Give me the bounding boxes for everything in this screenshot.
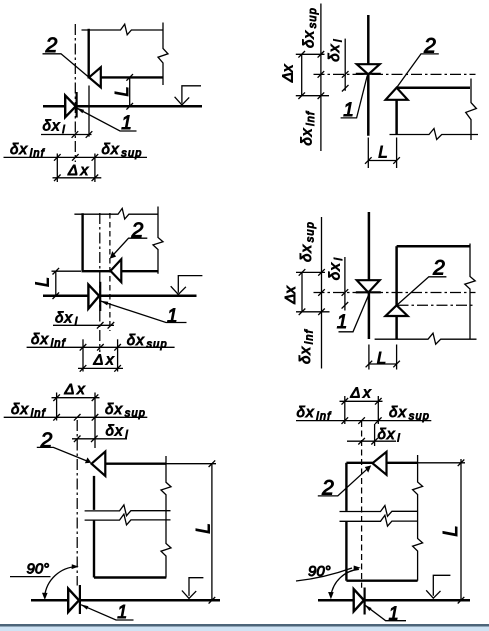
tick axis row: [97, 344, 104, 351]
tick DeltaX left: [342, 398, 349, 405]
tick inf: [53, 414, 60, 421]
axis line (dash-dot, vertical): [99, 213, 101, 352]
angle arrowhead down: [42, 593, 48, 600]
sight arrowhead: [182, 591, 196, 599]
svg-text:L: L: [440, 525, 462, 536]
svg-text:1: 1: [343, 100, 354, 121]
mark 1 tick: [75, 92, 77, 118]
svg-text:δxsup: δxsup: [127, 332, 168, 351]
svg-text:δxinf: δxinf: [299, 111, 318, 146]
baseline (thick): [43, 294, 197, 297]
dimension L line: [129, 77, 131, 106]
mark 2 triangle (open): [111, 259, 122, 282]
angle arc: [331, 569, 359, 596]
tick sup: [92, 414, 99, 421]
axis line (dash-dot, horizontal): [314, 73, 476, 75]
axis line (dashed, vertical): [361, 421, 363, 588]
svg-text:δxi: δxi: [327, 257, 346, 280]
building top edge (thick): [397, 245, 470, 248]
tick DeltaX bottom: [298, 92, 305, 99]
building right contour with breaks: [161, 456, 171, 578]
svg-text:δxinf: δxinf: [11, 401, 46, 420]
building top edge extension: [166, 463, 216, 465]
angle leader curve: [296, 568, 352, 581]
building wall below mark 2 (thick): [395, 100, 398, 135]
mark 2 triangle (open, up): [386, 305, 408, 316]
leader 1 arrowhead: [100, 301, 108, 306]
mark 1 tick bar: [356, 73, 381, 75]
svg-text:δxinf: δxinf: [10, 141, 45, 160]
svg-text:1: 1: [337, 312, 348, 333]
leader 1: [101, 301, 187, 323]
mark 2 triangle (open): [373, 452, 387, 475]
building bottom contour with break: [390, 129, 479, 140]
angle arrowhead right: [354, 566, 361, 571]
sight direction arrow: [433, 575, 450, 595]
dimension deltaX i line: [72, 438, 127, 440]
dimension row inf-sup line: [27, 346, 175, 348]
svg-text:δxinf: δxinf: [31, 331, 66, 350]
dimension L extension right: [396, 138, 398, 169]
dimension dXi line: [344, 39, 346, 91]
mark 1 triangle (open, down): [357, 280, 380, 292]
svg-text:L: L: [378, 143, 387, 162]
leader 2: [397, 277, 447, 305]
tick L right: [393, 157, 400, 164]
leader 2: [113, 238, 147, 255]
building left wall upper (thick): [395, 246, 398, 305]
axis line (dash-dot, vertical): [76, 420, 78, 586]
dimension L line: [368, 160, 396, 162]
leader 1 arrowhead: [76, 108, 84, 114]
svg-text:L: L: [377, 349, 386, 368]
building right contour with break: [153, 207, 163, 274]
sight arrowhead: [171, 286, 186, 294]
extension sup line: [94, 393, 96, 449]
leader 2: [43, 54, 90, 78]
tick axis level: [318, 289, 325, 296]
svg-text:1: 1: [167, 306, 178, 327]
break line lower: [85, 514, 171, 525]
leader 1 arrowhead: [80, 604, 88, 609]
tick L right: [393, 361, 400, 368]
dimension L line: [460, 459, 462, 600]
building top edge (thick): [105, 463, 166, 465]
tick dXi axis: [72, 131, 79, 138]
svg-text:δxsup: δxsup: [301, 7, 320, 48]
tick DeltaX left: [80, 365, 87, 372]
dimension DeltaX line: [53, 177, 102, 179]
axis line 2 (dash-dot, horizontal): [398, 304, 476, 306]
main vertical line (thick): [367, 15, 370, 136]
tick dXi point: [108, 322, 115, 329]
dimension deltaX i line: [347, 440, 396, 442]
dimension L extension left: [368, 345, 370, 370]
building left wall upper (thick): [93, 476, 95, 510]
mark 2 triangle (open): [92, 452, 106, 476]
svg-text:Δx: Δx: [93, 351, 117, 368]
svg-text:1: 1: [117, 602, 127, 622]
dimension L line: [369, 363, 397, 365]
mark 2 triangle (open, up): [386, 88, 408, 100]
tick inf boundary: [318, 309, 325, 316]
svg-text:90°: 90°: [27, 561, 50, 578]
svg-text:L: L: [33, 277, 53, 287]
tick L left: [365, 157, 372, 164]
tick inf: [342, 417, 349, 424]
tick DeltaX left: [54, 175, 61, 182]
dimension L line: [211, 464, 213, 601]
tick axis row: [358, 417, 365, 424]
tick L left: [366, 361, 373, 368]
tick dXi axis: [342, 71, 349, 78]
tick L top: [126, 74, 133, 81]
leader 2: [397, 54, 439, 88]
svg-text:2: 2: [40, 429, 53, 452]
svg-text:δxi: δxi: [106, 422, 129, 441]
building left wall upper (thick): [345, 463, 347, 511]
baseline (thick): [43, 105, 202, 108]
tick sup: [114, 344, 121, 351]
tick inf: [54, 154, 61, 161]
building right contour with break: [466, 79, 477, 141]
tick axis level: [318, 71, 325, 78]
leader 1: [81, 605, 134, 620]
sight direction arrow: [182, 86, 201, 104]
tick dXi axis: [342, 289, 349, 296]
dimension column main line: [320, 4, 322, 152]
extension inf line: [82, 339, 84, 371]
wall right contour with break: [158, 23, 168, 86]
building left wall (thick): [81, 213, 83, 271]
dimension L extension right: [396, 345, 398, 370]
building bottom edge left segment (thick): [82, 270, 111, 272]
baseline (thick): [318, 599, 470, 602]
tick DeltaX right: [92, 175, 99, 182]
tick dXi edge: [342, 85, 349, 92]
tick DeltaX right: [375, 398, 382, 405]
leader 1: [339, 294, 370, 332]
dimension DeltaX offset line: [301, 54, 303, 95]
extension inf line: [56, 154, 58, 183]
tick DeltaX bottom: [299, 309, 306, 316]
building top edge (thick): [397, 87, 470, 90]
extension sup line: [377, 396, 379, 424]
building bottom edge right segment (thick): [121, 270, 158, 272]
mark 1 tick: [79, 585, 81, 614]
dimension L line: [55, 271, 57, 296]
leader 1 arrowhead: [365, 605, 372, 611]
tick DeltaX right: [114, 365, 121, 372]
svg-text:Δx: Δx: [280, 64, 297, 83]
footer dark blue rule: [0, 624, 489, 627]
tick dXi axis: [358, 438, 365, 445]
ledge edge (thick horizontal): [99, 76, 164, 78]
svg-text:δxinf: δxinf: [297, 329, 316, 364]
wall edge (thick vertical): [87, 29, 89, 79]
extension inf line: [56, 393, 58, 421]
tick sup: [92, 154, 99, 161]
tick L bottom: [126, 103, 133, 110]
baseline (thick): [31, 599, 220, 602]
break line lower: [340, 515, 418, 526]
sight direction arrow: [189, 578, 203, 596]
dimension DeltaX line: [340, 400, 383, 402]
svg-text:δxsup: δxsup: [389, 404, 430, 423]
svg-text:L: L: [112, 86, 132, 96]
tick L top: [53, 268, 60, 275]
dimension row inf-sup line: [4, 156, 148, 158]
main vertical line (thick): [368, 212, 371, 339]
angle arc: [45, 567, 77, 597]
tick L top: [458, 460, 465, 467]
angle arrowhead right: [72, 564, 79, 569]
svg-text:1: 1: [121, 113, 132, 134]
building bottom edge (thick): [94, 576, 166, 578]
tick L bottom: [209, 597, 216, 604]
tick dXi wall: [86, 131, 93, 138]
svg-text:δxi: δxi: [43, 118, 66, 137]
building right contour with break: [465, 244, 475, 340]
svg-text:δxsup: δxsup: [102, 141, 143, 160]
svg-text:Δx: Δx: [64, 381, 88, 398]
mark 1 triangle (filled): [68, 589, 79, 612]
tick axis row: [72, 154, 79, 161]
extension sup line: [94, 154, 96, 183]
break line upper: [340, 506, 418, 517]
angle arrowhead down: [328, 592, 334, 599]
leader 1: [365, 605, 406, 621]
mark 1 triangle (open, down): [357, 64, 380, 74]
extension point line: [374, 424, 376, 446]
mark 1 tick: [364, 588, 366, 615]
svg-text:Δx: Δx: [67, 162, 91, 179]
leader 2: [37, 447, 89, 461]
tick DeltaX right: [92, 394, 99, 401]
tick axis row: [74, 414, 81, 421]
tick dXi axis: [74, 436, 81, 443]
point line (dashed, vertical): [109, 213, 111, 331]
dimension L extension left: [367, 138, 369, 169]
connector sup: [296, 53, 325, 55]
mark 2 triangle (open): [89, 67, 101, 87]
dimension deltaX i line: [41, 134, 92, 136]
svg-text:2: 2: [45, 34, 58, 57]
dimension DeltaX line: [78, 367, 123, 369]
building left wall lower (thick): [395, 316, 398, 339]
tick L top: [209, 460, 216, 467]
mark 1 tick bar: [356, 291, 381, 293]
building top edge left segment (thick): [346, 462, 372, 464]
building bottom edge (thick): [346, 580, 417, 582]
svg-text:1: 1: [389, 603, 399, 623]
sight arrowhead: [175, 97, 190, 105]
connector sup: [296, 271, 325, 273]
building top edge right segment (thick): [387, 462, 418, 464]
extension inf line: [344, 396, 346, 424]
svg-text:δxsup: δxsup: [105, 401, 146, 420]
wall top contour with break: [82, 24, 164, 35]
leader 2 arrowhead: [365, 465, 371, 472]
svg-text:2: 2: [432, 257, 445, 280]
tick dXi axis: [97, 322, 104, 329]
angle label shelf: [10, 576, 51, 578]
connector inf: [296, 95, 329, 97]
svg-text:Δx: Δx: [350, 385, 374, 402]
tick DeltaX top: [298, 51, 305, 58]
building top contour with break: [74, 208, 158, 219]
connector inf: [296, 311, 330, 313]
building bottom contour with break: [375, 333, 477, 344]
svg-text:2: 2: [321, 476, 334, 499]
mark 1 tick: [99, 282, 101, 311]
svg-text:2: 2: [423, 34, 436, 57]
leader 2: [318, 469, 367, 496]
axis line (dash-dot, vertical): [74, 24, 76, 162]
tick sup boundary: [318, 269, 325, 276]
svg-text:δxi: δxi: [326, 38, 345, 61]
dimension column main line: [321, 217, 323, 369]
leader 2 arrowhead: [85, 457, 91, 463]
dimension row inf-sup line: [4, 416, 148, 418]
footer light blue band: [0, 627, 489, 631]
leader 1: [341, 76, 368, 118]
extension wall line: [88, 86, 90, 137]
tick L bottom: [53, 292, 60, 299]
tick sup: [375, 417, 382, 424]
leader 2 arrowhead: [110, 251, 116, 259]
sight direction arrow: [178, 276, 202, 293]
break line upper: [85, 505, 171, 516]
dimension L extension: [52, 270, 82, 272]
tick inf: [80, 344, 87, 351]
svg-text:δxi: δxi: [378, 426, 401, 445]
tick dXi point: [342, 302, 349, 309]
svg-text:δxsup: δxsup: [298, 221, 317, 262]
axis line 1 (dash-dot, horizontal): [314, 292, 476, 294]
svg-text:L: L: [194, 523, 215, 534]
dimension row inf-sup line: [296, 420, 431, 422]
svg-text:2: 2: [131, 219, 144, 242]
dimension deltaX i line: [53, 324, 114, 326]
building right contour with breaks: [413, 455, 423, 581]
mark 1 triangle (filled): [88, 285, 99, 309]
tick sup boundary: [318, 51, 325, 58]
leader 1: [77, 108, 137, 131]
dimension DeltaX offset line: [301, 272, 303, 311]
sight arrowhead: [426, 590, 440, 598]
extension sup line: [117, 339, 119, 371]
mark 1 triangle (filled): [354, 589, 364, 611]
tick DeltaX top: [299, 269, 306, 276]
svg-text:Δx: Δx: [282, 286, 299, 305]
building left wall lower (thick): [345, 521, 347, 581]
building left wall lower (thick): [93, 521, 95, 578]
dimension DeltaX line: [52, 397, 100, 399]
tick dXi point: [371, 438, 378, 445]
dimension dXi line: [344, 257, 346, 311]
building top edge extension: [418, 462, 465, 464]
tick inf boundary: [318, 92, 325, 99]
tick L bottom: [458, 597, 465, 604]
mark 1 triangle (filled): [65, 95, 76, 117]
tick DeltaX left: [53, 394, 60, 401]
tick dXi point: [91, 436, 98, 443]
svg-text:δxinf: δxinf: [297, 404, 332, 423]
